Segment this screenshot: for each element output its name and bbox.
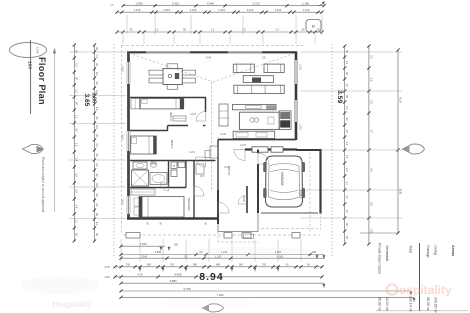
svg-text:1,110: 1,110	[190, 8, 197, 12]
svg-text:Areas: Areas	[451, 245, 456, 257]
left marker pointed oval	[23, 144, 45, 153]
master bed	[139, 197, 184, 218]
svg-text:4,940: 4,940	[207, 1, 215, 5]
svg-text:2,3: 2,3	[369, 78, 372, 82]
svg-text:ospitality: ospitality	[399, 283, 452, 297]
svg-text:3,720: 3,720	[252, 1, 260, 5]
wall garage top	[296, 149, 322, 151]
svg-text:760: 760	[126, 264, 131, 267]
top string end hook	[318, 2, 324, 6]
svg-text:Hospitality: Hospitality	[52, 299, 92, 309]
svg-text:Living: Living	[434, 245, 438, 255]
bottom dimension string 2	[121, 254, 324, 256]
wall bed2 top	[130, 97, 206, 99]
svg-text:1,210: 1,210	[218, 8, 225, 12]
site boundary right dotted	[331, 44, 333, 258]
svg-text:4,75: 4,75	[104, 265, 110, 269]
hall fixtures	[196, 164, 204, 174]
wall top exterior	[127, 51, 297, 53]
bottom dimension string 4	[115, 266, 322, 268]
svg-text:8,35: 8,35	[398, 189, 402, 195]
svg-text:GL08: GL08	[220, 133, 227, 136]
svg-text:1,4: 1,4	[75, 205, 78, 209]
right dimension string outer	[397, 50, 399, 233]
garage eave dashed vertical	[309, 152, 311, 233]
pantry	[219, 104, 228, 126]
bottom dimension string 6	[121, 282, 324, 284]
left dimension string outer	[73, 45, 75, 241]
svg-text:2,550: 2,550	[155, 250, 162, 254]
wall bath right	[168, 161, 170, 188]
linen cupboard	[210, 146, 218, 158]
svg-text:1,3: 1,3	[75, 143, 78, 147]
left dimension string inner	[94, 45, 96, 241]
svg-text:4,5: 4,5	[110, 3, 114, 7]
svg-text:850: 850	[193, 264, 198, 267]
right dimension string middle	[368, 46, 370, 244]
bed 2	[140, 99, 184, 109]
paper smudge 1	[22, 276, 98, 294]
top dimension string third	[117, 31, 322, 33]
svg-text:1,010: 1,010	[163, 8, 170, 12]
site boundary left dotted	[113, 44, 115, 258]
svg-text:4,435: 4,435	[174, 273, 182, 277]
wall laundry	[185, 161, 187, 188]
svg-text:9,19: 9,19	[398, 97, 402, 103]
svg-text:860: 860	[216, 264, 221, 267]
right dimension foot	[360, 232, 398, 234]
car in garage	[266, 156, 303, 207]
eave dashed outline left	[121, 46, 123, 236]
svg-text:Private Open Space: Private Open Space	[378, 243, 382, 274]
svg-text:1,0: 1,0	[75, 89, 78, 93]
svg-text:8.04: 8.04	[206, 56, 212, 60]
svg-text:Garage: Garage	[426, 245, 430, 258]
svg-text:GL03: GL03	[190, 113, 197, 116]
svg-text:850: 850	[147, 264, 152, 267]
hall ceiling dashed	[211, 82, 213, 190]
wall bed2 right	[205, 98, 207, 113]
entry sidelight windows	[252, 147, 268, 152]
bottom dimension string 1	[121, 245, 165, 247]
svg-text:4,35: 4,35	[104, 275, 110, 279]
svg-text:290: 290	[312, 250, 317, 254]
svg-text:3,540: 3,540	[141, 255, 148, 259]
svg-text:0918: 0918	[121, 134, 125, 140]
svg-text:36.50 m²: 36.50 m²	[426, 297, 430, 312]
bottom dimension string 7	[121, 290, 411, 292]
kitchen benches	[233, 104, 277, 109]
wall bed2-bed3 divider right	[168, 125, 189, 127]
svg-text:R05: R05	[200, 175, 205, 178]
svg-text:1,530: 1,530	[140, 242, 147, 246]
wall bed3 bottom	[130, 160, 216, 162]
pier markers	[126, 233, 140, 239]
wall entry front	[245, 148, 297, 150]
roof valley dashed 2	[213, 53, 295, 82]
svg-text:2,180: 2,180	[302, 1, 310, 5]
svg-text:GL05: GL05	[189, 151, 196, 154]
svg-text:1,4: 1,4	[275, 29, 279, 32]
porch outline	[218, 213, 258, 232]
svg-text:1,5: 1,5	[75, 189, 78, 193]
top wall window 1	[146, 51, 190, 53]
svg-text:3,7: 3,7	[369, 130, 372, 134]
paper smudge 3	[190, 247, 310, 257]
right witness lines	[300, 51, 402, 53]
wall left window gaps	[127, 62, 130, 84]
svg-text:4,75: 4,75	[137, 273, 143, 277]
wall hall lower	[193, 161, 195, 219]
svg-text:763: 763	[262, 264, 267, 267]
svg-text:SD: SD	[262, 56, 266, 60]
wall master top	[130, 187, 186, 189]
wall right exterior upper	[295, 52, 298, 141]
svg-text:8.94: 8.94	[199, 272, 224, 283]
svg-text:36.80 m²: 36.80 m²	[378, 297, 382, 312]
wall garage left	[257, 150, 259, 154]
svg-text:VER: VER	[242, 196, 246, 202]
dining table and chairs	[163, 69, 182, 85]
svg-text:12.54 m²: 12.54 m²	[385, 297, 389, 312]
svg-text:1218: 1218	[299, 64, 303, 70]
svg-text:BED 3: BED 3	[170, 140, 174, 149]
bathroom fixtures	[133, 162, 147, 169]
paper smudge 2	[165, 297, 255, 309]
bottom marker pointed oval	[202, 304, 224, 312]
svg-text:1,419: 1,419	[134, 8, 141, 12]
svg-text:1,1: 1,1	[75, 115, 78, 119]
svg-text:900: 900	[239, 264, 244, 267]
svg-text:2,8: 2,8	[369, 202, 372, 206]
leader line with arrow	[53, 48, 56, 213]
svg-text:0918: 0918	[121, 66, 125, 72]
svg-text:1,2: 1,2	[75, 63, 78, 67]
eave dashed outline top	[121, 45, 303, 47]
svg-text:0918: 0918	[121, 199, 125, 205]
svg-text:2,2: 2,2	[369, 55, 372, 59]
svg-text:3,880: 3,880	[170, 279, 177, 283]
svg-text:100: 100	[27, 61, 33, 69]
wall divider jog	[167, 126, 169, 132]
svg-text:3.59: 3.59	[336, 90, 343, 103]
svg-text:1,930: 1,930	[135, 1, 143, 5]
laundry fixtures	[171, 162, 177, 169]
garage door dashed	[261, 228, 318, 230]
svg-text:760: 760	[170, 264, 175, 267]
title divider line	[30, 40, 32, 114]
svg-text:7,940: 7,940	[217, 293, 224, 297]
svg-text:GL06: GL06	[240, 144, 247, 147]
svg-text:GARAGE: GARAGE	[280, 172, 284, 186]
svg-text:1,110: 1,110	[247, 8, 254, 12]
svg-text:1218: 1218	[299, 124, 303, 130]
svg-text:1,110: 1,110	[275, 8, 282, 12]
svg-text:Plans are subject to council a: Plans are subject to council approval	[41, 157, 45, 212]
bottom dimension string 3	[121, 257, 324, 259]
area schedule table	[419, 243, 421, 311]
wall kitchen bottom	[218, 139, 296, 141]
living room sofas	[233, 64, 254, 72]
wall right window gap 2	[294, 100, 297, 122]
wall bed2-bed3 divider left	[130, 130, 168, 132]
svg-text:149.65 m²: 149.65 m²	[434, 297, 438, 313]
title bubble ellipse	[10, 43, 47, 58]
svg-text:1,5: 1,5	[75, 173, 78, 177]
svg-text:2,2: 2,2	[369, 100, 372, 104]
top witness lines	[126, 15, 128, 35]
top dimension string overall	[123, 5, 324, 7]
svg-text:6.0x5.8: 6.0x5.8	[299, 190, 303, 199]
eaves dashed line bottom	[123, 234, 320, 236]
bottom witness lines	[120, 239, 122, 262]
svg-text:1,3: 1,3	[155, 29, 159, 32]
top dimension string second	[117, 11, 322, 13]
svg-text:5,750: 5,750	[184, 287, 191, 291]
svg-text:1:100: 1:100	[36, 47, 40, 54]
svg-text:GL09: GL09	[224, 166, 231, 169]
bottom dimension string 8	[121, 296, 414, 298]
entry store arc	[238, 195, 247, 204]
svg-text:BED 2: BED 2	[169, 113, 173, 122]
svg-text:202.14 m²: 202.14 m²	[409, 296, 413, 313]
svg-text:Verandah: Verandah	[385, 245, 389, 261]
roof valley dashed 1	[129, 53, 213, 82]
door swing arcs	[196, 112, 206, 122]
top wall window 2	[228, 51, 262, 53]
wall garage right	[319, 149, 321, 214]
wall left exterior	[127, 52, 130, 220]
wall hall mid	[217, 140, 219, 161]
svg-text:MASTER: MASTER	[187, 198, 191, 211]
svg-text:1,2: 1,2	[75, 219, 78, 223]
bottom dimension string 5	[115, 276, 322, 278]
verandah dashed eave	[218, 232, 258, 243]
svg-text:4,0: 4,0	[369, 168, 372, 172]
smoke alarm box	[306, 20, 321, 33]
right dimension string inner	[344, 46, 346, 244]
bed 3	[131, 136, 157, 154]
wall hall right lower	[217, 161, 219, 191]
wall right window gap	[294, 60, 297, 84]
entry store wall	[246, 186, 248, 213]
svg-text:1,210: 1,210	[303, 8, 310, 12]
svg-text:2,415: 2,415	[172, 1, 180, 5]
svg-text:Total: Total	[409, 245, 413, 253]
svg-text:Floor Plan: Floor Plan	[37, 57, 47, 105]
left witness lines	[69, 51, 126, 53]
svg-text:3.05: 3.05	[91, 93, 97, 104]
wall bottom exterior	[127, 217, 217, 220]
svg-text:R: R	[312, 24, 315, 29]
porch step	[244, 234, 254, 239]
right marker pointed oval	[402, 144, 425, 154]
watermark circle	[387, 284, 397, 294]
wall porch left	[217, 190, 219, 224]
garage door line	[261, 212, 318, 214]
svg-text:290: 290	[174, 243, 179, 246]
svg-text:1,2: 1,2	[211, 29, 215, 32]
